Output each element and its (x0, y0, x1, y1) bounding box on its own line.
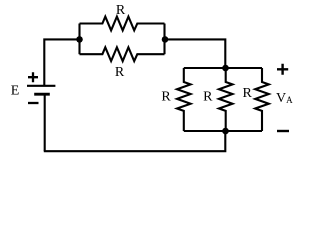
battery minus sign (28, 102, 39, 104)
battery E positive plate (27, 85, 55, 87)
node B junction dot (162, 36, 169, 43)
svg-text:R: R (203, 89, 213, 104)
resistor R middle of bank (219, 68, 233, 131)
bank bottom node junction dot (222, 128, 229, 135)
battery plus sign (28, 72, 38, 82)
svg-text:R: R (115, 65, 125, 80)
resistor R bottom of parallel pair (80, 47, 165, 61)
wire battery positive terminal up and right to node A (44, 39, 79, 85)
svg-text:E: E (11, 84, 20, 99)
wire node B to resistor bank top node (165, 39, 226, 68)
wire resistor bank top rail (184, 67, 262, 69)
output plus sign (277, 64, 288, 75)
battery E negative plate (34, 93, 50, 96)
wire bottom rail (44, 131, 226, 151)
svg-text:R: R (161, 89, 171, 104)
wire left vertical of parallel pair at node A (78, 24, 80, 55)
resistor R right of bank (255, 68, 269, 131)
output minus sign (277, 130, 289, 132)
svg-text:VA: VA (276, 91, 293, 106)
node A junction dot (76, 36, 83, 43)
wire battery negative terminal down to bottom rail (44, 94, 46, 151)
bank top node junction dot (222, 65, 229, 72)
resistor R left of bank (177, 68, 191, 131)
wire right vertical of parallel pair at node B (163, 24, 165, 55)
wire resistor bank bottom rail (184, 130, 262, 132)
svg-text:R: R (243, 86, 253, 101)
resistor R top of parallel pair (80, 17, 165, 31)
svg-text:R: R (116, 3, 126, 18)
